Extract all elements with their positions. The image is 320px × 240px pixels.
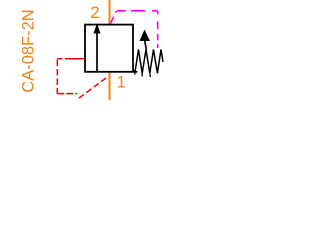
wire pilot line diagonal from port 2 (magenta dashed) xyxy=(111,11,117,24)
flow arrow (poppet) xyxy=(94,23,101,71)
wire port 2 line (top) xyxy=(109,0,111,24)
port label 2 xyxy=(90,3,99,22)
valve envelope xyxy=(85,25,138,72)
wire drain pilot line upper (red dashed) xyxy=(57,58,85,60)
wire pilot line right vertical (magenta dashed) xyxy=(157,11,159,48)
svg-text:CA-08F-2N: CA-08F-2N xyxy=(20,9,38,92)
wire port 1 line (bottom) xyxy=(109,72,111,101)
port label 1 xyxy=(117,73,126,91)
svg-text:2: 2 xyxy=(90,3,99,22)
spring xyxy=(133,50,163,78)
wire drain pilot diagonal to port 1 (red dashed) xyxy=(79,76,108,98)
svg-text:1: 1 xyxy=(117,73,126,91)
valve model label CA-08F-2N (rotated) xyxy=(20,9,38,92)
pilot piston arrow xyxy=(140,30,151,50)
wire pilot line top horizontal (magenta dashed) xyxy=(117,10,158,12)
wire drain pilot line lower (red dashed) xyxy=(57,93,77,95)
wire drain pilot line vertical (red dashed) xyxy=(56,60,58,94)
